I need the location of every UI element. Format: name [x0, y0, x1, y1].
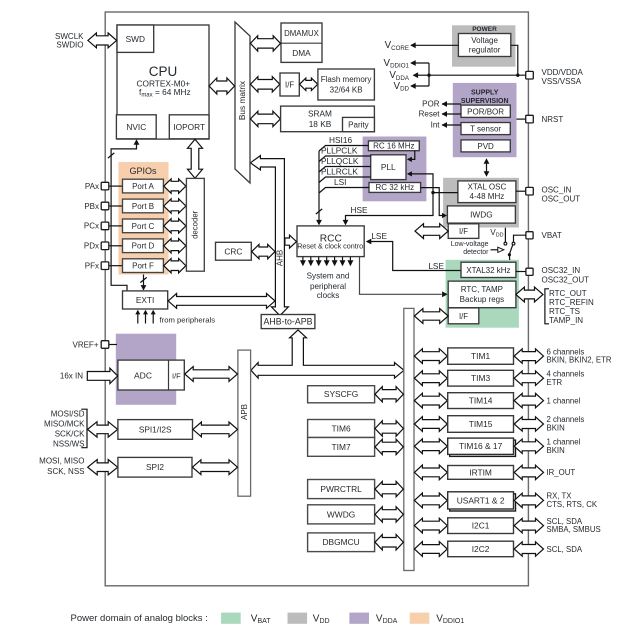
wire HSE from XTAL OSC to RCC — [346, 193, 458, 223]
arrow IOPORT to decoder — [188, 139, 203, 178]
block PVD — [461, 140, 510, 152]
svg-text:16x IN: 16x IN — [60, 372, 83, 381]
svg-text:HSE: HSE — [351, 205, 369, 215]
bracket SPI1 signals — [81, 409, 87, 448]
pin VBAT — [526, 232, 533, 239]
svg-text:TIM15: TIM15 — [469, 419, 493, 429]
block flash I/F — [280, 73, 299, 96]
arrow TIM3 external signals — [514, 371, 543, 385]
arrow WWDG to peripheral bus — [375, 507, 403, 522]
svg-text:PBx: PBx — [84, 202, 99, 211]
svg-text:SCK/CK: SCK/CK — [55, 429, 85, 438]
arrow I2C1 external signals — [514, 518, 543, 533]
svg-text:PLLPCLK: PLLPCLK — [321, 146, 358, 156]
svg-text:ADC: ADC — [134, 371, 152, 381]
arrow ADC to APB — [185, 367, 238, 382]
svg-text:I2C2: I2C2 — [472, 544, 490, 554]
arrow TIM7 to peripheral bus — [375, 439, 403, 454]
block POR/BOR — [461, 105, 510, 117]
svg-text:clocks: clocks — [317, 291, 340, 300]
block SYSCFG — [308, 386, 375, 403]
arrow RTC I/F to peripheral bus — [414, 309, 448, 324]
block SWD — [117, 25, 154, 52]
block TIM15 — [448, 416, 514, 433]
block Port F — [123, 259, 164, 273]
svg-text:Port C: Port C — [132, 222, 155, 231]
svg-text:PWRCTRL: PWRCTRL — [320, 484, 362, 494]
svg-text:SRAM: SRAM — [308, 108, 332, 118]
arrow TIM14 external signals — [514, 393, 543, 407]
svg-text:AHB-to-APB: AHB-to-APB — [264, 317, 313, 327]
svg-text:WWDG: WWDG — [327, 509, 355, 519]
svg-text:RTC_OUT: RTC_OUT — [549, 289, 587, 298]
arrow VDD — [411, 85, 429, 87]
svg-text:SPI2: SPI2 — [146, 462, 164, 472]
block PLL — [371, 155, 406, 180]
arrow CPU to bus matrix — [209, 78, 235, 94]
block XTAL OSC 4-48 MHz — [458, 181, 516, 203]
svg-text:Port F: Port F — [132, 262, 154, 271]
arrow SWD debug port — [88, 33, 117, 48]
svg-text:VSS/VSSA: VSS/VSSA — [542, 77, 582, 86]
arrow SPI1 external — [88, 422, 118, 437]
arrow flash I/F to flash memory — [300, 78, 318, 90]
arrow IRTIM external signals — [514, 465, 543, 479]
svg-text:Parity: Parity — [348, 120, 368, 129]
svg-text:TIM16 & 17: TIM16 & 17 — [459, 441, 503, 451]
svg-text:VDD/VDDA: VDD/VDDA — [542, 68, 584, 77]
arrow TIM1 external signals — [514, 349, 543, 363]
wire OSC pin — [516, 190, 526, 192]
bus APB — [238, 350, 251, 496]
arrow DBGMCU to peripheral bus — [375, 535, 403, 551]
block RTC I/F — [448, 308, 479, 324]
legend swatch VDDA — [349, 613, 369, 624]
wire VDD/VDDA pin rail — [429, 74, 526, 76]
wire LSI to IWDG — [421, 188, 446, 216]
block Port C — [123, 219, 164, 233]
svg-text:PFx: PFx — [85, 262, 99, 271]
wire HSE to PLL — [408, 174, 433, 193]
block TIM3 — [448, 370, 514, 386]
svg-text:BKIN, BKIN2, ETR: BKIN, BKIN2, ETR — [547, 356, 612, 365]
svg-text:PLLQCLK: PLLQCLK — [321, 156, 359, 166]
svg-text:USART1 & 2: USART1 & 2 — [457, 495, 505, 505]
power domain block VDD (POWER) — [452, 25, 515, 66]
svg-text:I2C1: I2C1 — [472, 521, 490, 531]
svg-text:Backup regs: Backup regs — [460, 295, 504, 304]
svg-text:1 channel: 1 channel — [547, 396, 581, 405]
block TIM14 — [448, 393, 514, 409]
svg-text:SMBA, SMBUS: SMBA, SMBUS — [547, 525, 601, 534]
svg-text:LSI: LSI — [334, 177, 346, 187]
power domain block VBAT (RTC) — [446, 260, 519, 328]
block Port A — [123, 179, 164, 193]
wire GPIO to EXTI — [143, 275, 145, 288]
arrow peripheral bus to TIM1616 — [414, 439, 447, 454]
svg-text:SPI1/I2S: SPI1/I2S — [139, 424, 172, 434]
block IOPORT — [169, 115, 209, 139]
bus AHB-to-APB bridge output (bent fat arrow APB to peripheral bus) — [251, 330, 404, 378]
arrow bus matrix to flash I/F — [250, 77, 279, 92]
block ADC with I/F — [118, 360, 184, 390]
arrow supply supervision to XTAL OSC block — [486, 161, 488, 175]
block SRAM — [281, 106, 375, 132]
svg-text:EXTI: EXTI — [136, 295, 154, 305]
arrow XTAL I/F to bus — [415, 224, 448, 239]
arrow TIM15 external signals — [514, 417, 543, 431]
svg-text:4-48 MHz: 4-48 MHz — [470, 192, 505, 201]
wire NRST — [517, 118, 526, 120]
arrow EXTI to AHB — [168, 294, 275, 309]
arrow 16x IN to ADC — [87, 368, 117, 383]
block RC 16 MHz — [368, 141, 419, 151]
block IWDG — [447, 206, 515, 223]
svg-text:I/F: I/F — [459, 227, 468, 236]
svg-text:RTC, TAMP: RTC, TAMP — [461, 285, 503, 294]
svg-text:Int: Int — [431, 121, 441, 130]
block XTAL32 kHz — [461, 262, 516, 277]
svg-text:SWDIO: SWDIO — [56, 41, 83, 50]
svg-text:TIM14: TIM14 — [469, 396, 493, 406]
svg-text:Reset: Reset — [419, 110, 441, 119]
arrow SPI1 to APB — [193, 422, 238, 437]
bus AHB (bent fat arrow from bus matrix to AHB-to-APB) — [250, 156, 288, 316]
wire EXTI to NVIC interrupt — [111, 142, 136, 291]
block CRC — [216, 242, 252, 260]
arrow POR output — [442, 103, 461, 105]
arrow LSE into RCC — [367, 242, 461, 271]
arrow AHB to RCC — [285, 235, 297, 248]
block RCC reset and clock control — [297, 226, 364, 257]
svg-text:LSE: LSE — [428, 261, 444, 271]
wire VDD to switch — [504, 228, 506, 243]
block AHB-to-APB — [261, 315, 315, 329]
svg-text:Low-voltage: Low-voltage — [451, 241, 489, 248]
svg-text:Voltage: Voltage — [471, 36, 498, 45]
svg-text:DMAMUX: DMAMUX — [284, 29, 319, 38]
svg-text:SCL, SDA: SCL, SDA — [547, 545, 583, 554]
arrow peripheral bus to TIM14 — [414, 393, 447, 408]
svg-text:PDx: PDx — [84, 242, 99, 251]
wire clock lines down to RCC — [318, 151, 320, 223]
arrow bus matrix to SRAM — [250, 111, 280, 126]
block XTAL I/F — [448, 224, 479, 239]
svg-text:AHB: AHB — [275, 250, 284, 266]
block Port D — [123, 239, 164, 253]
block voltage regulator — [458, 34, 510, 57]
svg-text:18 KB: 18 KB — [309, 119, 332, 129]
arrow peripheral bus to USART1 — [414, 493, 447, 508]
wire RC16 to PLL — [408, 151, 415, 160]
arrow TIM1616 external signals — [514, 439, 543, 453]
svg-text:SUPPLY: SUPPLY — [471, 90, 499, 97]
svg-text:ETR: ETR — [547, 378, 563, 387]
wire VBAT to switch — [514, 235, 526, 242]
arrows RCC clock outputs — [302, 257, 304, 261]
device frame — [105, 12, 528, 586]
svg-text:RTC_REFIN: RTC_REFIN — [549, 298, 594, 307]
legend swatch VDDIO1 — [410, 613, 430, 624]
block TIM1616 — [450, 440, 516, 456]
svg-text:CRC: CRC — [224, 246, 242, 256]
block IRTIM — [448, 466, 514, 480]
svg-text:T sensor: T sensor — [470, 125, 501, 134]
wire RCC to RTC — [360, 257, 442, 294]
svg-text:RC 32 kHz: RC 32 kHz — [375, 183, 414, 192]
svg-text:PVD: PVD — [477, 142, 494, 151]
svg-text:IR_OUT: IR_OUT — [547, 468, 576, 477]
svg-text:TAMP_IN: TAMP_IN — [549, 316, 583, 325]
svg-text:Port B: Port B — [132, 202, 154, 211]
svg-text:Port A: Port A — [132, 182, 154, 191]
block RTC TAMP backup regs — [448, 281, 516, 308]
svg-text:TIM7: TIM7 — [332, 442, 351, 452]
svg-text:APB: APB — [240, 404, 249, 420]
legend swatch VDD — [288, 613, 308, 624]
block SPI1/I2S — [118, 420, 193, 440]
wire voltage regulator to VDD pin — [511, 45, 518, 75]
arrow Int output — [442, 124, 461, 126]
block SPI2 — [118, 457, 192, 477]
arrow Port D to decoder — [164, 239, 186, 253]
svg-text:decoder: decoder — [191, 210, 200, 239]
arrow Port C to decoder — [164, 219, 186, 233]
arrow peripheral bus to I2C1 — [414, 518, 447, 533]
svg-text:IRTIM: IRTIM — [469, 467, 492, 477]
bus peripheral APB column — [404, 308, 414, 570]
legend swatch VBAT — [221, 613, 241, 624]
svg-text:MOSI/SD: MOSI/SD — [51, 409, 85, 418]
svg-text:Bus matrix: Bus matrix — [237, 80, 247, 120]
pin OSC32_IN OSC32_OUT — [526, 268, 533, 275]
svg-text:LSE: LSE — [371, 231, 387, 241]
arrow PWRCTRL to peripheral bus — [375, 481, 403, 496]
svg-text:from peripherals: from peripherals — [160, 316, 216, 325]
svg-text:PLLRCLK: PLLRCLK — [321, 167, 358, 177]
arrows from peripherals into EXTI — [137, 313, 139, 324]
svg-text:detector: detector — [463, 249, 489, 256]
svg-text:SCK, NSS: SCK, NSS — [47, 467, 84, 476]
svg-text:DBGMCU: DBGMCU — [322, 537, 359, 547]
svg-text:VBAT: VBAT — [542, 231, 562, 240]
svg-text:TIM6: TIM6 — [332, 424, 351, 434]
svg-text:32/64 KB: 32/64 KB — [330, 86, 363, 95]
svg-text:peripheral: peripheral — [310, 282, 346, 291]
block TIM1 — [448, 348, 514, 364]
block CPU — [117, 25, 209, 139]
arrow peripheral bus to TIM3 — [414, 371, 447, 386]
svg-text:OSC_IN: OSC_IN — [542, 186, 572, 195]
svg-text:IOPORT: IOPORT — [173, 122, 205, 132]
svg-text:CTS, RTS, CK: CTS, RTS, CK — [547, 500, 598, 509]
arrow Port B to decoder — [164, 199, 186, 213]
arrow peripheral bus to I2C2 — [414, 542, 447, 557]
svg-text:POR: POR — [422, 100, 440, 109]
svg-text:I/F: I/F — [172, 371, 181, 380]
svg-text:MISO/MCK: MISO/MCK — [44, 419, 85, 428]
arrow VDDIO1 — [411, 62, 429, 64]
arrow peripheral bus to TIM1 — [414, 349, 447, 364]
block decoder — [186, 178, 204, 271]
svg-text:POWER: POWER — [472, 26, 497, 33]
svg-text:System and: System and — [307, 272, 350, 281]
svg-text:regulator: regulator — [469, 46, 501, 55]
power domain block VDD (XTAL OSC / IWDG) — [443, 178, 519, 228]
bracket RTC signals — [545, 289, 549, 324]
block flash memory — [318, 69, 375, 100]
arrow peripheral bus to TIM15 — [414, 417, 447, 432]
svg-text:I/F: I/F — [459, 312, 468, 321]
svg-text:NVIC: NVIC — [126, 122, 146, 132]
svg-text:TIM1: TIM1 — [471, 351, 490, 361]
svg-text:XTAL32 kHz: XTAL32 kHz — [466, 266, 510, 275]
svg-text:GPIOs: GPIOs — [129, 166, 157, 176]
pin NRST — [526, 115, 534, 123]
svg-text:OSC32_IN: OSC32_IN — [542, 266, 581, 275]
arrow Port F to decoder — [164, 259, 186, 273]
block PWRCTRL — [308, 480, 375, 499]
power domain block VDDA (clocks) — [363, 137, 427, 202]
arrow VCORE supply — [411, 44, 458, 46]
block DBGMCU — [308, 533, 375, 552]
arrow SPI2 to APB — [192, 460, 237, 475]
arrow USART1 external signals — [514, 493, 543, 507]
power domain block VDDA (ADC) — [116, 334, 176, 405]
svg-text:NRST: NRST — [542, 115, 564, 124]
svg-text:PLL: PLL — [381, 162, 396, 172]
svg-text:OSC_OUT: OSC_OUT — [542, 194, 581, 203]
arrow TIM6 to peripheral bus — [375, 421, 403, 436]
arrow bus matrix to DMAMUX/DMA — [250, 36, 280, 51]
svg-text:VREF+: VREF+ — [72, 340, 98, 349]
svg-text:HSI16: HSI16 — [329, 135, 352, 145]
arrow Reset output — [442, 113, 461, 115]
block bus matrix — [235, 22, 250, 183]
svg-text:POR/BOR: POR/BOR — [467, 107, 504, 116]
svg-text:SWD: SWD — [126, 34, 145, 44]
arrow peripheral bus to IRTIM — [414, 465, 447, 480]
svg-text:RTC_TS: RTC_TS — [549, 307, 580, 316]
svg-text:MOSI, MISO: MOSI, MISO — [39, 457, 84, 466]
svg-text:OSC32_OUT: OSC32_OUT — [542, 275, 590, 284]
svg-text:PCx: PCx — [84, 222, 99, 231]
wire VDDIO1/VDDA/VDD distribution — [428, 63, 430, 86]
block USART1 — [450, 494, 516, 511]
arrow CRC to AHB — [252, 244, 275, 258]
svg-text:IWDG: IWDG — [470, 210, 493, 220]
block T sensor — [461, 123, 510, 135]
pin VDD/VDDA VSS/VSSA — [526, 71, 534, 79]
svg-text:PAx: PAx — [85, 182, 99, 191]
block EXTI — [123, 291, 168, 309]
svg-text:NSS/WS: NSS/WS — [53, 439, 85, 448]
svg-text:XTAL OSC: XTAL OSC — [468, 182, 507, 191]
svg-text:Port D: Port D — [132, 242, 155, 251]
arrow low-voltage detector — [491, 249, 498, 251]
svg-text:DMA: DMA — [292, 48, 311, 58]
arrow Port A to decoder — [164, 179, 186, 193]
pin OSC_IN OSC_OUT — [526, 187, 534, 195]
svg-text:I/F: I/F — [285, 80, 294, 89]
arrow RTC external signals — [516, 287, 543, 302]
block WWDG — [308, 505, 375, 524]
block NVIC — [116, 115, 156, 139]
svg-text:TIM3: TIM3 — [471, 373, 490, 383]
arrow I2C2 external signals — [514, 542, 543, 556]
block TIM6 — [308, 420, 375, 438]
svg-text:SYSCFG: SYSCFG — [324, 389, 358, 399]
wire OSC32 pin — [516, 271, 526, 273]
svg-text:Power domain of analog blocks: Power domain of analog blocks : — [70, 613, 207, 624]
svg-text:BKIN: BKIN — [547, 424, 565, 433]
block I2C2 — [448, 541, 514, 557]
block Port B — [123, 199, 164, 213]
svg-text:CPU: CPU — [149, 64, 178, 79]
block I2C1 — [448, 518, 514, 534]
svg-text:SUPERVISION: SUPERVISION — [461, 98, 509, 105]
svg-text:Reset & clock control: Reset & clock control — [297, 241, 365, 250]
svg-text:BKIN: BKIN — [547, 446, 565, 455]
power domain block VDDIO1 (GPIOs) — [118, 162, 168, 275]
block parity — [343, 117, 375, 131]
arrow SPI2 external — [88, 460, 118, 475]
svg-text:Flash memory: Flash memory — [321, 75, 372, 84]
block TIM7 — [308, 438, 375, 457]
power domain block VDDA (supply supervision) — [453, 83, 517, 157]
switch battery backup — [510, 245, 513, 254]
block RC 32 kHz — [369, 183, 421, 193]
svg-text:RC 16 MHz: RC 16 MHz — [373, 142, 414, 151]
arrow SYSCFG to peripheral bus — [375, 387, 403, 402]
block DMAMUX / DMA — [281, 23, 322, 62]
